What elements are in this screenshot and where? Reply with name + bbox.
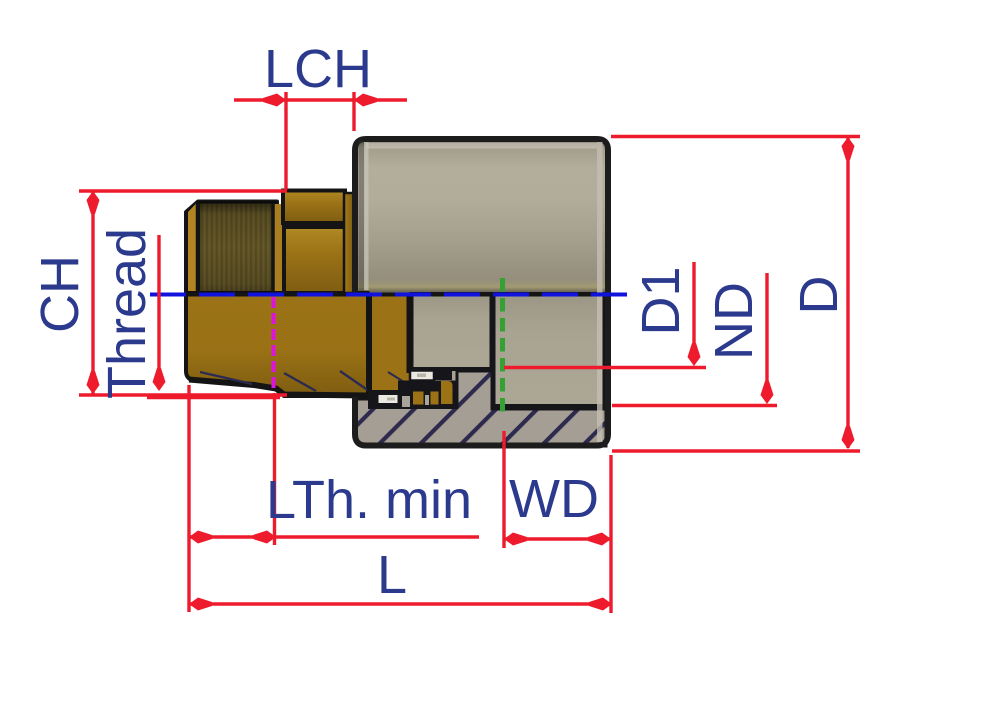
svg-text:WD: WD: [509, 469, 599, 529]
svg-text:LTh. min: LTh. min: [266, 470, 472, 530]
svg-text:D1: D1: [631, 266, 691, 335]
svg-text:D: D: [789, 276, 849, 315]
svg-text:Thread: Thread: [97, 228, 157, 399]
svg-text:LCH: LCH: [264, 39, 372, 99]
svg-text:ND: ND: [704, 282, 764, 360]
svg-text:CH: CH: [30, 255, 90, 333]
svg-text:L: L: [377, 545, 407, 605]
